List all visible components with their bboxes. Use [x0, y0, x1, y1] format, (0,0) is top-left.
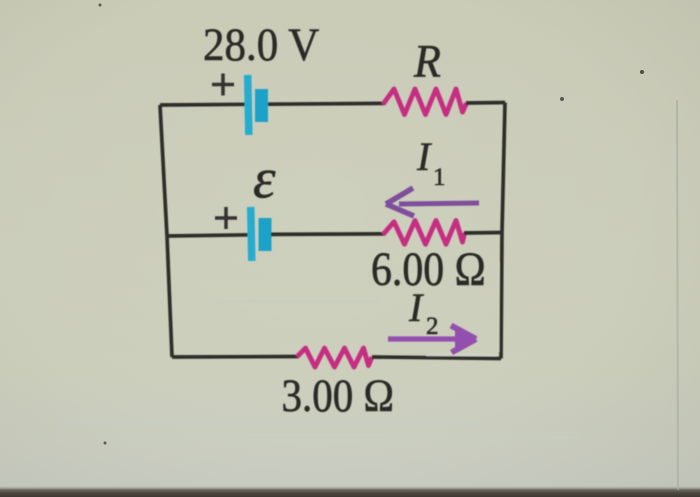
wire middle-mid segment	[271, 232, 384, 236]
current arrow I1	[386, 188, 479, 216]
wire middle-right segment	[464, 231, 502, 235]
svg-text:ε: ε	[253, 148, 276, 211]
battery V1 28.0 V plates	[244, 75, 268, 135]
svg-text:R: R	[413, 35, 441, 86]
wire top-right segment	[466, 101, 505, 105]
resistor 6.00 ohm	[383, 221, 465, 245]
battery EMF plus sign	[215, 207, 237, 229]
svg-text:2: 2	[426, 313, 439, 340]
svg-text:I: I	[416, 134, 432, 179]
svg-text:6.00 Ω: 6.00 Ω	[371, 242, 486, 295]
label I2	[408, 285, 439, 340]
wire bottom-right segment	[372, 357, 501, 359]
wire right lower	[501, 233, 502, 359]
wire bottom-left segment	[172, 355, 298, 359]
resistor 3.00 ohm	[297, 348, 372, 367]
svg-text:1: 1	[433, 164, 446, 191]
wire top-mid segment	[268, 102, 384, 106]
svg-text:3.00 Ω: 3.00 Ω	[282, 371, 394, 422]
wire middle-left segment	[167, 235, 251, 236]
resistor R	[383, 89, 467, 115]
svg-text:28.0 V: 28.0 V	[203, 18, 319, 70]
wire top-left segment	[160, 102, 248, 106]
wire left lower	[167, 236, 172, 357]
wire left upper	[160, 105, 167, 236]
svg-text:I: I	[408, 285, 424, 330]
wire right upper	[502, 103, 505, 233]
battery V1 plus sign	[212, 74, 234, 96]
battery EMF plates	[247, 207, 272, 261]
label I1	[416, 134, 446, 191]
current arrow I2	[388, 326, 476, 353]
